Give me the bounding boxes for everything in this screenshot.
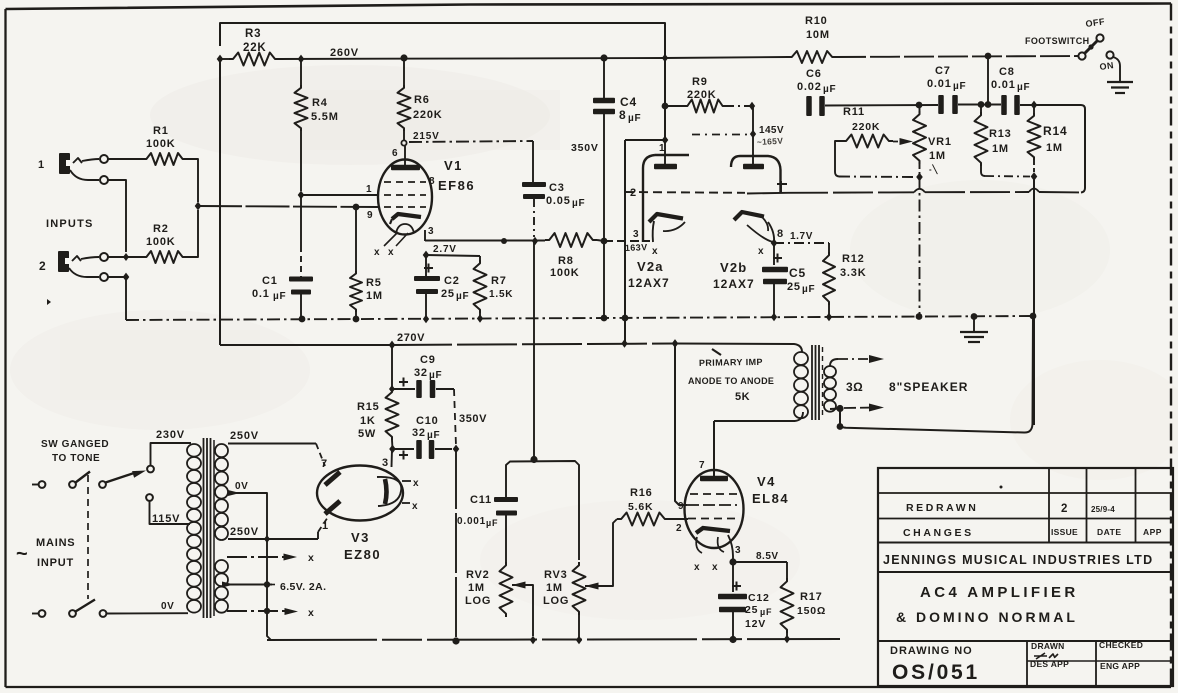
node R3/R4 xyxy=(298,55,305,64)
resistor R6 xyxy=(403,58,405,85)
svg-text:0V: 0V xyxy=(161,601,174,612)
svg-text:0.05: 0.05 xyxy=(546,195,571,207)
svg-text:145V: 145V xyxy=(759,125,784,136)
svg-text:DATE: DATE xyxy=(1097,527,1122,537)
wire 250V bottom tap xyxy=(228,538,318,540)
svg-text:215V: 215V xyxy=(413,131,440,142)
capacitor C8 xyxy=(1001,95,1007,115)
svg-text:10M: 10M xyxy=(806,29,830,41)
node xyxy=(672,339,679,348)
potentiometer RV3 xyxy=(573,562,586,615)
svg-text:V2b: V2b xyxy=(720,260,747,275)
mains switch upper xyxy=(32,484,38,486)
wire xyxy=(665,57,788,58)
svg-text:2: 2 xyxy=(39,259,46,273)
node xyxy=(389,445,396,454)
svg-text:LOG: LOG xyxy=(543,595,569,607)
V1 anode plate xyxy=(391,165,420,171)
svg-text:2: 2 xyxy=(676,523,682,534)
svg-text:EL84: EL84 xyxy=(752,491,789,506)
wire to V3 pin7 xyxy=(316,444,325,467)
wire xyxy=(597,240,604,241)
svg-text:C12: C12 xyxy=(748,592,770,604)
capacitor C3 xyxy=(532,141,534,182)
svg-text:350V: 350V xyxy=(571,142,599,154)
node grid/R5 xyxy=(353,204,360,211)
wire xyxy=(107,612,189,614)
wire OT primary top xyxy=(675,344,802,353)
node xyxy=(501,238,507,244)
svg-text:1M: 1M xyxy=(992,143,1009,155)
svg-text:0.001: 0.001 xyxy=(457,516,486,527)
svg-text:3: 3 xyxy=(382,457,389,469)
svg-text:1M: 1M xyxy=(929,150,946,162)
V4 screen line xyxy=(687,504,737,506)
resistor R14 xyxy=(1033,105,1035,113)
tube V1 envelope xyxy=(378,160,432,235)
wire xyxy=(81,257,99,259)
wire grid line xyxy=(198,206,378,207)
V1 anode lead xyxy=(404,146,406,165)
svg-text:25/9-4: 25/9-4 xyxy=(1091,505,1115,514)
node VR1 bottom xyxy=(916,173,923,182)
wire xyxy=(1113,57,1120,82)
V4 cathode xyxy=(696,528,730,533)
jack J2 xyxy=(58,251,69,272)
wire footswitch drop xyxy=(987,56,989,105)
wire xyxy=(186,210,198,257)
V3 anode 1 (pin7) xyxy=(325,472,340,485)
svg-text:5W: 5W xyxy=(358,428,376,440)
capacitor C5 xyxy=(773,243,775,265)
svg-text:MAINS: MAINS xyxy=(36,537,75,549)
transformer T1 heater secondary xyxy=(215,560,228,573)
V2b grid terminal xyxy=(747,192,788,195)
svg-text:R17: R17 xyxy=(800,591,823,603)
wire 215V dash-dot xyxy=(409,141,533,142)
stray tick xyxy=(712,349,721,355)
node R14 bottom xyxy=(1031,172,1038,181)
V3 cathode bar xyxy=(385,479,387,504)
resistor R15 xyxy=(386,389,399,440)
wire xyxy=(836,56,1078,57)
svg-text:3: 3 xyxy=(735,545,741,556)
svg-text:250V: 250V xyxy=(230,526,259,538)
node xyxy=(264,608,270,614)
svg-text:25: 25 xyxy=(745,604,758,616)
svg-text:INPUT: INPUT xyxy=(37,557,74,569)
svg-text:C9: C9 xyxy=(420,354,436,366)
svg-text:OS/051: OS/051 xyxy=(892,661,980,684)
wire cathode row xyxy=(425,240,545,242)
svg-text:0.1: 0.1 xyxy=(252,288,270,300)
node VR1 top xyxy=(916,102,923,109)
resistor R12 xyxy=(774,242,829,244)
svg-text:1K: 1K xyxy=(360,415,376,427)
V1 cathode xyxy=(392,214,421,219)
wire xyxy=(1020,104,1081,106)
svg-text:R5: R5 xyxy=(366,277,382,289)
svg-text:C10: C10 xyxy=(416,415,439,427)
footswitch xyxy=(1078,52,1085,59)
wire xyxy=(108,276,126,278)
svg-text:0V: 0V xyxy=(235,481,248,492)
wire xyxy=(669,518,688,520)
gang link dashed xyxy=(87,475,89,599)
svg-text:8: 8 xyxy=(619,108,626,122)
svg-text:32: 32 xyxy=(414,367,428,379)
node R5 xyxy=(353,316,360,323)
svg-text:25: 25 xyxy=(441,288,455,300)
wire xyxy=(125,277,127,320)
svg-text:x: x xyxy=(374,247,380,258)
capacitor C12 xyxy=(732,562,734,592)
V1 heater legs xyxy=(384,232,408,246)
resistor R2 xyxy=(143,251,186,263)
svg-text:C3: C3 xyxy=(549,182,565,194)
jack J1 tip contact xyxy=(73,158,82,163)
node R14 top xyxy=(1031,101,1038,110)
svg-text:REDRAWN: REDRAWN xyxy=(906,502,978,514)
svg-text:R10: R10 xyxy=(805,15,828,27)
node R17 bottom xyxy=(784,635,790,643)
wire 270V to screen xyxy=(675,344,687,506)
tube V2a envelope xyxy=(643,155,689,242)
wire xyxy=(726,105,752,107)
svg-text:R15: R15 xyxy=(357,401,380,413)
svg-text:VR1: VR1 xyxy=(928,136,952,148)
svg-text:R8: R8 xyxy=(558,255,574,267)
svg-text:230V: 230V xyxy=(156,429,185,441)
svg-text:-╲: -╲ xyxy=(929,164,938,175)
wire xyxy=(108,256,143,258)
wire xyxy=(958,104,1001,106)
potentiometer VR1 xyxy=(913,111,926,164)
V4 heater hooks xyxy=(696,537,724,553)
jack J2 sleeve wire xyxy=(69,268,99,277)
transformer T1 HT secondary xyxy=(215,444,228,457)
svg-text:EF86: EF86 xyxy=(438,178,475,193)
wire speaker bottom xyxy=(830,408,840,411)
svg-text:1: 1 xyxy=(322,520,329,532)
svg-text:APP: APP xyxy=(1143,527,1162,537)
svg-text:ENG APP: ENG APP xyxy=(1100,661,1140,671)
tube V2b envelope xyxy=(731,156,781,193)
svg-text:CHECKED: CHECKED xyxy=(1099,640,1143,650)
wire C3 feed drop xyxy=(533,241,535,459)
wire xyxy=(108,180,126,252)
wire 250V top tap xyxy=(228,443,316,445)
svg-text:9: 9 xyxy=(678,501,684,512)
svg-text:R12: R12 xyxy=(842,253,865,265)
voltage selector lever xyxy=(106,472,138,483)
svg-text:µF: µF xyxy=(486,518,498,528)
wire cap row xyxy=(825,104,938,107)
capacitor C11 xyxy=(494,497,518,502)
svg-text:ANODE TO ANODE: ANODE TO ANODE xyxy=(688,376,774,386)
node jack2/R2 xyxy=(123,253,129,261)
wire speaker return xyxy=(840,316,1033,433)
border frame xyxy=(6,4,1172,10)
svg-text:TO TONE: TO TONE xyxy=(52,453,100,464)
node xyxy=(217,55,224,64)
wire heater mid xyxy=(226,584,272,586)
mains switch lower xyxy=(32,613,38,615)
wire xyxy=(625,139,665,141)
node R9 tap xyxy=(662,103,669,110)
V1 heater loop xyxy=(396,224,414,233)
resistor R5 xyxy=(355,207,357,271)
resistor R3 xyxy=(229,53,279,66)
wire xyxy=(186,159,198,202)
node C5 xyxy=(771,313,777,321)
resistor R9 xyxy=(665,105,684,107)
svg-text:8: 8 xyxy=(777,228,784,240)
svg-text:C2: C2 xyxy=(444,275,460,287)
svg-text:~: ~ xyxy=(16,543,28,565)
transformer T1 primary tap 115V xyxy=(150,501,191,524)
svg-text:FOOTSWITCH: FOOTSWITCH xyxy=(1025,36,1090,46)
svg-text:32: 32 xyxy=(412,427,426,439)
svg-text:1M: 1M xyxy=(546,582,563,594)
svg-text:6.5V. 2A.: 6.5V. 2A. xyxy=(280,581,326,593)
svg-text:R14: R14 xyxy=(1043,124,1067,138)
svg-text:3.3K: 3.3K xyxy=(840,267,866,279)
V3 heater stub xyxy=(402,480,411,482)
node xyxy=(622,315,629,322)
svg-text:EZ80: EZ80 xyxy=(344,547,381,562)
node R6 top xyxy=(400,54,407,61)
V3 cathode arc xyxy=(377,477,401,506)
svg-text:12V: 12V xyxy=(745,618,766,630)
svg-text:C5: C5 xyxy=(789,266,806,280)
V2b anode plate xyxy=(743,164,764,170)
svg-text:R1: R1 xyxy=(153,125,169,137)
capacitor C6 xyxy=(806,96,812,116)
svg-text:µF: µF xyxy=(760,607,772,617)
wire heater bottom xyxy=(227,610,291,612)
node xyxy=(453,445,460,454)
svg-text:1.5K: 1.5K xyxy=(489,289,513,300)
transformer T1 primary winding xyxy=(187,444,201,457)
svg-text:µF: µF xyxy=(953,81,966,92)
wire heater top xyxy=(227,556,290,558)
svg-text:DRAWING NO: DRAWING NO xyxy=(890,645,973,657)
wire x665 vertical xyxy=(664,23,666,140)
V1 grid dashes g2 xyxy=(384,194,426,196)
node xyxy=(530,456,537,463)
svg-text:350V: 350V xyxy=(459,413,487,425)
svg-text:x: x xyxy=(412,501,418,512)
svg-text:1M: 1M xyxy=(1046,142,1063,154)
svg-text:R13: R13 xyxy=(989,128,1012,140)
svg-text:RV3: RV3 xyxy=(544,569,568,581)
svg-text:DRAWN: DRAWN xyxy=(1031,641,1065,651)
svg-text:9: 9 xyxy=(367,210,373,221)
node 2.7V xyxy=(423,251,430,260)
resistor R8 xyxy=(545,233,597,247)
svg-text:22K: 22K xyxy=(243,42,267,54)
stray mark xyxy=(47,299,51,305)
wire 350V drop xyxy=(455,449,457,641)
jack J1 sleeve wire xyxy=(70,170,99,180)
RV2 wiper xyxy=(512,582,526,589)
V4 cathode lead xyxy=(728,535,733,562)
capacitor C1 xyxy=(300,195,302,246)
tube V4 envelope xyxy=(685,470,744,548)
node xyxy=(985,53,992,60)
svg-text:DES APP: DES APP xyxy=(1030,659,1069,669)
node xyxy=(971,313,978,320)
wire xyxy=(391,345,393,389)
resistor R4 xyxy=(300,59,302,85)
node xyxy=(1030,313,1037,320)
wire x220 vertical xyxy=(219,59,221,345)
svg-text:8.5V: 8.5V xyxy=(756,551,779,562)
svg-text:µF: µF xyxy=(572,198,585,209)
wire xyxy=(108,158,143,160)
svg-text:260V: 260V xyxy=(330,47,359,59)
svg-text:C6: C6 xyxy=(806,68,822,80)
V2a cathode xyxy=(649,214,683,222)
V4 anode lead xyxy=(713,421,715,476)
node C2 xyxy=(423,315,429,323)
terminal xyxy=(100,155,108,163)
V2a cathode arc xyxy=(663,222,685,231)
wire 0V center tap xyxy=(228,492,263,494)
svg-text:1M: 1M xyxy=(468,582,485,594)
svg-text:& DOMINO NORMAL: & DOMINO NORMAL xyxy=(896,609,1078,625)
svg-text:x: x xyxy=(694,562,700,573)
node C1 xyxy=(299,316,306,323)
svg-text:V3: V3 xyxy=(351,530,370,545)
svg-text:5K: 5K xyxy=(735,391,750,403)
node R7 xyxy=(477,314,483,322)
svg-text:R11: R11 xyxy=(843,106,865,118)
jack J1 xyxy=(59,153,70,174)
RV3 wiper xyxy=(585,583,599,590)
svg-text:µF: µF xyxy=(823,84,836,95)
svg-text:C4: C4 xyxy=(620,95,637,109)
svg-text:150Ω: 150Ω xyxy=(797,605,826,617)
node C4 xyxy=(601,315,608,322)
title block rows xyxy=(878,492,1173,494)
svg-text:3: 3 xyxy=(633,229,639,240)
node xyxy=(530,636,536,644)
potentiometer RV2 xyxy=(500,562,513,617)
svg-text:R9: R9 xyxy=(692,76,708,88)
svg-text:5.6K: 5.6K xyxy=(628,501,653,513)
wire C9 right drop xyxy=(454,389,456,446)
node xyxy=(985,101,992,108)
signature xyxy=(1034,653,1058,659)
svg-text:V2a: V2a xyxy=(637,259,664,274)
svg-text:µF: µF xyxy=(628,113,641,124)
capacitor C4 xyxy=(603,58,605,98)
svg-text:220K: 220K xyxy=(687,89,717,101)
wire inner top xyxy=(220,23,665,58)
wire 145V dash xyxy=(692,134,748,136)
svg-text:2: 2 xyxy=(1061,503,1068,515)
V1 grid dashes g3 xyxy=(384,181,426,183)
resistor R16 xyxy=(617,513,669,526)
svg-text:8: 8 xyxy=(429,176,435,187)
node xyxy=(123,273,130,282)
wire V2b grid line xyxy=(788,191,1081,194)
V2b grid dashes xyxy=(0,0,1,1)
node RV3 bottom xyxy=(576,636,582,644)
svg-text:µF: µF xyxy=(456,291,469,302)
node C3/R8 xyxy=(532,237,538,245)
svg-text:12AX7: 12AX7 xyxy=(713,277,755,291)
resistor R10 xyxy=(788,51,836,63)
wire xyxy=(220,58,229,60)
svg-text:LOG: LOG xyxy=(465,595,491,607)
V3 heater stub2 xyxy=(402,502,410,504)
V1 cathode lead pin3 xyxy=(424,230,426,241)
svg-text:7: 7 xyxy=(321,458,328,470)
svg-text:100K: 100K xyxy=(146,236,176,248)
resistor R13 xyxy=(980,105,982,113)
node R13 top xyxy=(978,101,985,108)
svg-text:x: x xyxy=(712,562,718,573)
svg-text:INPUTS: INPUTS xyxy=(46,218,94,230)
svg-text:x: x xyxy=(308,607,315,619)
svg-text:12AX7: 12AX7 xyxy=(628,276,670,290)
V3 pin3 lead xyxy=(391,449,394,467)
title block frame xyxy=(878,468,1173,686)
svg-text:0.01: 0.01 xyxy=(927,78,952,90)
svg-text:0.01: 0.01 xyxy=(991,79,1016,91)
svg-text:1: 1 xyxy=(38,159,45,171)
terminal xyxy=(100,176,108,184)
resistor R7 xyxy=(426,255,480,256)
svg-text:PRIMARY IMP: PRIMARY IMP xyxy=(699,357,763,368)
node xyxy=(837,423,844,430)
node VR1 xyxy=(916,313,923,320)
node cathode junction xyxy=(729,558,736,565)
svg-text:6: 6 xyxy=(392,148,398,159)
wire right loop xyxy=(1081,105,1085,193)
resistor R17 xyxy=(733,561,787,563)
svg-text:2: 2 xyxy=(630,187,637,199)
svg-text:µF: µF xyxy=(1017,82,1030,93)
svg-text:C1: C1 xyxy=(262,275,278,287)
svg-text:1M: 1M xyxy=(366,290,383,302)
svg-text:250V: 250V xyxy=(230,430,259,442)
node R4/pin1/C1 xyxy=(298,191,305,200)
V2a grid dashes xyxy=(625,191,745,194)
svg-text:R2: R2 xyxy=(153,223,169,235)
svg-text:1: 1 xyxy=(366,184,372,195)
transformer T1 core xyxy=(203,438,205,618)
svg-text:2.7V: 2.7V xyxy=(433,244,457,255)
wire pot top row xyxy=(506,461,579,560)
svg-text:C11: C11 xyxy=(470,494,492,506)
svg-text:ISSUE: ISSUE xyxy=(1051,527,1078,537)
node C12 bottom xyxy=(729,636,736,643)
wire 0V drop xyxy=(263,493,271,640)
node xyxy=(264,535,270,543)
svg-text:µF: µF xyxy=(429,370,442,381)
node xyxy=(601,238,608,245)
wire 270V bus xyxy=(220,344,392,346)
V1 grid dashes g1 xyxy=(384,206,426,208)
svg-text:x: x xyxy=(308,552,315,564)
wire bottom bus xyxy=(267,639,840,640)
svg-text:R6: R6 xyxy=(414,94,430,106)
OT primary winding xyxy=(794,352,808,365)
